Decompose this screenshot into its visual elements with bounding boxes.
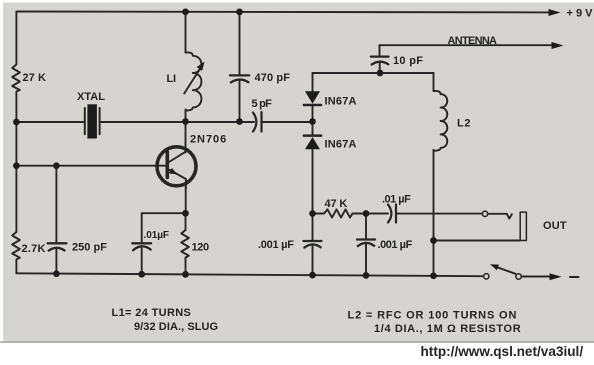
wire top rail +9V	[16, 11, 550, 14]
wire switch to minus	[522, 276, 551, 278]
node .001uF left bottom	[309, 272, 316, 279]
wire 47K to .01uF	[353, 213, 389, 215]
svg-text:10 pF: 10 pF	[393, 55, 423, 67]
svg-text:9/32 DIA., SLUG: 9/32 DIA., SLUG	[134, 321, 218, 333]
L1 tuning arrow	[184, 62, 204, 94]
inductor L2 lead lower	[433, 150, 435, 276]
minus sign	[570, 276, 579, 278]
capacitor C 470pF	[230, 75, 249, 82]
diode D1 1N67A	[304, 91, 321, 105]
crystal XTAL	[85, 104, 100, 138]
switch arm	[490, 264, 516, 274]
wire 10pF lower	[379, 62, 381, 73]
svg-text:OUT: OUT	[543, 220, 567, 232]
resistor R 2.7K zigzag	[12, 232, 20, 260]
wire base row	[16, 165, 166, 167]
svg-text:XTAL: XTAL	[77, 91, 105, 103]
wire xtal row right to 5pF	[100, 121, 254, 123]
svg-text:L2: L2	[457, 118, 471, 130]
svg-text:470 pF: 470 pF	[255, 72, 291, 84]
node xtal row / left rail	[13, 119, 20, 126]
wire emitter to .01uF branch	[142, 213, 186, 243]
capacitor C 10pF	[371, 57, 389, 65]
wire jack sleeve	[434, 240, 520, 242]
wire 250pF branch lower	[55, 248, 57, 274]
wire collector lead	[185, 122, 187, 153]
wire 5pF to diode node	[262, 121, 313, 123]
svg-text:5 pF: 5 pF	[252, 98, 273, 110]
inductor L1 lead upper	[185, 12, 187, 53]
capacitor C 250pF	[48, 243, 67, 250]
wire .001uF right lower	[365, 244, 367, 276]
antenna arrowhead	[552, 42, 564, 49]
svg-text:.01 µF: .01 µF	[382, 194, 411, 206]
node 250pF top	[53, 162, 60, 169]
svg-text:27 K: 27 K	[23, 72, 46, 84]
inductor L2 coil	[434, 91, 448, 151]
wire left rail upper segment	[15, 12, 17, 65]
node .01uF bottom	[138, 271, 145, 278]
node diode bottom / 47K	[309, 210, 316, 217]
node base row / left rail	[13, 162, 20, 169]
svg-text:http://www.qsl.net/va3iul/: http://www.qsl.net/va3iul/	[421, 344, 584, 359]
wire 470pF branch lower	[239, 81, 241, 122]
svg-text:2.7K: 2.7K	[22, 243, 46, 255]
jack tip terminal circle	[482, 211, 487, 216]
inductor L2 lead upper	[433, 73, 435, 91]
wire diode node horizontal	[313, 72, 434, 74]
wire emitter lead	[185, 187, 187, 214]
wire jack tip contact	[488, 213, 507, 215]
svg-text:IN67A: IN67A	[325, 96, 357, 108]
wire left rail middle segment	[15, 92, 17, 232]
node collector / L1	[182, 118, 189, 125]
scan bottom edge line	[0, 341, 594, 343]
wire between diodes	[312, 105, 314, 136]
wire 120 lower	[185, 258, 187, 274]
capacitor C 470pF branch upper	[239, 12, 241, 75]
wire left rail lower segment	[15, 260, 17, 273]
wire xtal row left	[16, 121, 84, 123]
svg-text:47 K: 47 K	[325, 198, 348, 210]
resistor R 47K zigzag	[324, 209, 353, 217]
node L2 / ground rail	[430, 272, 437, 279]
+9V arrowhead	[549, 9, 561, 16]
svg-text:.01µF: .01µF	[144, 230, 170, 241]
wire bottom ground rail	[16, 273, 482, 276]
svg-text:IN67A: IN67A	[325, 139, 357, 151]
wire .01uF to jack tip	[396, 213, 482, 215]
svg-text:.001 µF: .001 µF	[258, 239, 294, 251]
wire 10pF upper	[379, 45, 381, 56]
node L2 / jack sleeve	[430, 237, 437, 244]
node 250pF bottom	[53, 270, 60, 277]
node 120 bottom	[182, 271, 189, 278]
transistor Q1 2N706	[157, 147, 196, 188]
svg-text:.001 µF: .001 µF	[378, 239, 413, 251]
switch terminal circle B	[516, 274, 521, 279]
svg-text:1/4 DIA., 1M Ω RESISTOR: 1/4 DIA., 1M Ω RESISTOR	[374, 323, 521, 335]
node 470pF bottom	[236, 118, 243, 125]
resistor R 120 zigzag	[181, 230, 189, 258]
diode chain top lead	[312, 73, 314, 92]
antenna feed line	[380, 44, 553, 46]
wire 47K row left	[313, 213, 325, 215]
switch terminal circle A	[484, 274, 489, 279]
capacitor C .001uF right	[357, 240, 375, 247]
svg-text:+9V: +9V	[567, 8, 594, 20]
jack tip spring v	[507, 214, 512, 219]
svg-text:L1= 24 TURNS: L1= 24 TURNS	[112, 307, 191, 319]
capacitor C .01uF emitter	[132, 243, 151, 250]
svg-text:2N706: 2N706	[190, 134, 226, 146]
svg-text:ANTENNA: ANTENNA	[448, 35, 498, 47]
inductor L1 coil	[186, 52, 202, 110]
node L1 top rail	[182, 8, 189, 15]
jack OUT plug body	[520, 212, 526, 240]
wire diode chain lower	[312, 149, 314, 241]
node emitter junction	[182, 210, 189, 217]
minus lead arrowhead	[550, 273, 562, 280]
resistor R 27K zigzag	[12, 65, 20, 92]
capacitor C .001uF left	[304, 241, 322, 248]
wire .001uF left lower	[312, 245, 314, 275]
svg-text:250 pF: 250 pF	[72, 242, 107, 254]
inductor L1 lead lower	[185, 110, 187, 122]
node 47K / .001uF right	[363, 210, 370, 217]
capacitor C .001uF right upper lead	[365, 214, 367, 240]
node 10pF bottom	[377, 70, 384, 77]
capacitor C 5pF	[253, 112, 262, 132]
svg-text:120: 120	[192, 242, 210, 254]
capacitor C .01uF output	[388, 205, 396, 223]
wire .01uF lower	[141, 249, 143, 275]
node 470pF top rail	[236, 9, 243, 16]
svg-text:LI: LI	[167, 73, 177, 85]
wire 250pF branch upper	[55, 166, 57, 243]
svg-text:L2 = RFC OR 100 TURNS ON: L2 = RFC OR 100 TURNS ON	[348, 310, 517, 322]
node diode middle	[309, 118, 316, 125]
node .001uF right bottom	[363, 272, 370, 279]
diode D2 1N67A	[304, 136, 321, 150]
wire emitter to 120	[185, 213, 187, 230]
